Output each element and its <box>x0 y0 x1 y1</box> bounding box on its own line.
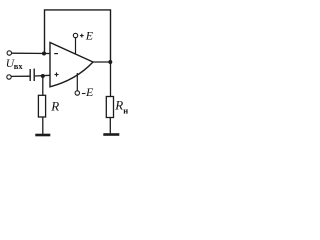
label -E <box>82 93 86 95</box>
wire output node down to resistor Rн <box>110 62 112 97</box>
wire lower input terminal to capacitor <box>11 75 29 77</box>
terminal -E <box>75 91 79 95</box>
wire junction down to resistor R <box>42 76 44 95</box>
capacitor C1 <box>29 69 31 81</box>
op-amp inverting input label - <box>54 53 58 55</box>
node junction at inverting input <box>42 52 46 56</box>
wire +E stem to op-amp top edge <box>75 38 77 55</box>
label +E <box>80 35 84 37</box>
op-amp non-inverting input label + <box>55 74 59 76</box>
svg-text:E: E <box>85 85 94 99</box>
ground (right) <box>103 133 119 136</box>
resistor R <box>38 95 45 117</box>
op-amp U1 <box>50 43 93 87</box>
wire resistor R to ground <box>42 117 44 134</box>
ground (left) <box>35 134 50 137</box>
svg-text:вх: вх <box>14 61 24 71</box>
node junction at non-inverting input <box>41 74 45 78</box>
node junction at output <box>108 60 112 64</box>
svg-text:R: R <box>50 99 59 114</box>
wire -E stem from op-amp bottom edge <box>76 73 78 91</box>
svg-text:E: E <box>85 28 94 42</box>
resistor Rн <box>106 97 113 118</box>
wire resistor Rн to ground <box>109 118 111 134</box>
wire upper input terminal to inverting input <box>12 52 50 54</box>
wire capacitor to non-inverting input <box>35 74 50 77</box>
svg-text:R: R <box>114 98 123 113</box>
wire feedback loop from inverting input node up over to output node <box>45 10 111 62</box>
svg-text:н: н <box>123 105 128 115</box>
wire op-amp output to output node <box>93 61 111 63</box>
input terminal (inverting, upper) <box>7 51 11 55</box>
input terminal (non-inverting, lower) <box>7 75 11 79</box>
terminal +E <box>73 33 77 37</box>
